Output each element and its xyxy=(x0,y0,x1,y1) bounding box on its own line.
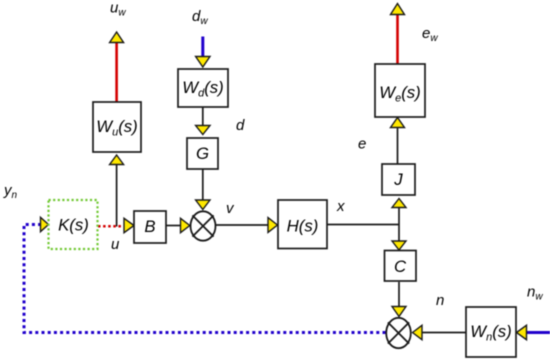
svg-text:u: u xyxy=(111,236,120,253)
svg-text:G: G xyxy=(196,144,209,163)
svg-text:d: d xyxy=(236,117,245,134)
svg-text:K(s): K(s) xyxy=(58,216,89,235)
svg-text:n: n xyxy=(436,292,444,309)
svg-text:B: B xyxy=(144,217,155,236)
svg-text:C: C xyxy=(394,257,407,276)
svg-text:e: e xyxy=(358,136,366,153)
svg-text:J: J xyxy=(393,170,403,189)
svg-text:H(s): H(s) xyxy=(287,217,319,236)
svg-text:x: x xyxy=(336,198,345,215)
